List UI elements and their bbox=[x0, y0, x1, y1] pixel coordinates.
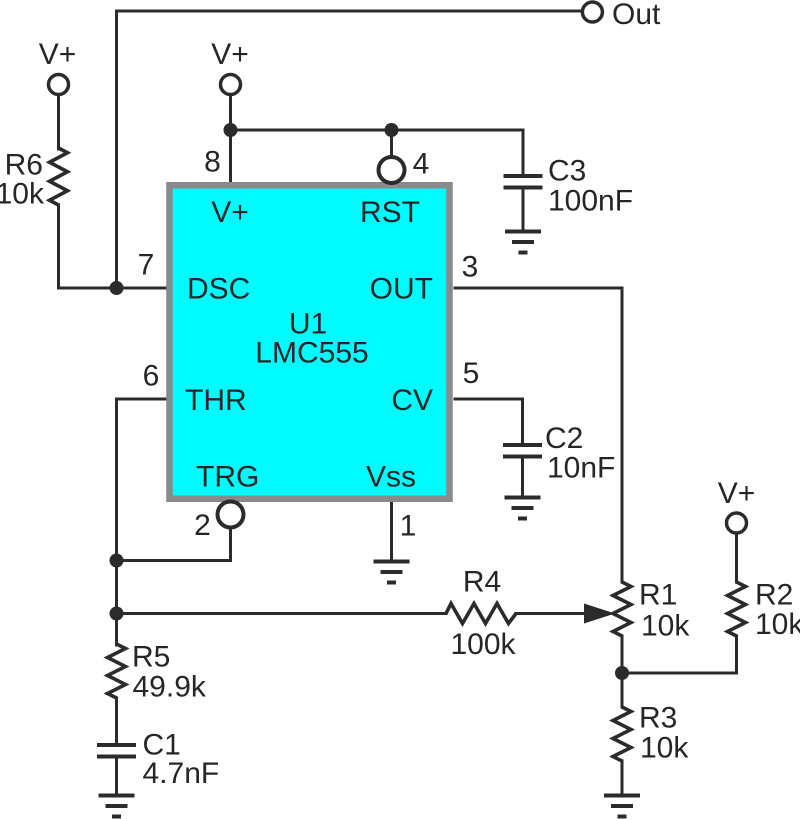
svg-text:2: 2 bbox=[194, 509, 211, 542]
svg-text:CV: CV bbox=[391, 384, 433, 417]
resistor R5 bbox=[108, 644, 126, 698]
svg-text:RST: RST bbox=[360, 196, 420, 229]
node junction pin7 bbox=[110, 281, 124, 295]
wire pin5 to C2 bbox=[455, 399, 523, 443]
svg-text:R1: R1 bbox=[639, 579, 677, 612]
node junction V+ rail at pin8 bbox=[224, 123, 238, 137]
svg-text:Out: Out bbox=[612, 0, 661, 31]
wire node to R2 bottom bbox=[622, 636, 737, 673]
node junction R1/R2/R3 bbox=[615, 666, 629, 680]
svg-text:THR: THR bbox=[185, 384, 247, 417]
node junction V+ rail at pin4 bbox=[385, 123, 399, 137]
svg-text:100nF: 100nF bbox=[548, 185, 633, 218]
resistor R3 bbox=[613, 707, 631, 761]
svg-text:10k: 10k bbox=[641, 610, 690, 643]
wire V+ left to R6 bbox=[57, 95, 60, 149]
wire R1 bottom to node bbox=[621, 636, 624, 673]
svg-text:R5: R5 bbox=[132, 641, 170, 674]
svg-text:TRG: TRG bbox=[196, 461, 259, 494]
svg-text:V+: V+ bbox=[211, 38, 249, 71]
svg-text:7: 7 bbox=[138, 249, 155, 282]
wire R2 top to V+ bbox=[735, 533, 738, 582]
svg-text:10k: 10k bbox=[0, 178, 45, 211]
svg-text:3: 3 bbox=[462, 251, 479, 284]
wire R6 bottom to node bbox=[57, 205, 60, 288]
wire pin3 to R1 top bbox=[455, 288, 622, 582]
wire R3 top bbox=[621, 673, 624, 707]
wire pin1 to ground bbox=[390, 502, 393, 560]
svg-text:V+: V+ bbox=[39, 38, 77, 71]
svg-text:100k: 100k bbox=[450, 628, 516, 661]
svg-text:OUT: OUT bbox=[370, 273, 433, 306]
svg-text:C2: C2 bbox=[545, 422, 583, 455]
wire C1 to ground bbox=[115, 758, 118, 794]
svg-text:4: 4 bbox=[413, 148, 430, 181]
svg-text:1: 1 bbox=[400, 510, 417, 543]
wire R5 to C1 bbox=[115, 698, 118, 743]
wire pin6 to node bbox=[117, 399, 167, 561]
ground C3 bbox=[505, 230, 541, 234]
terminal Out bbox=[582, 2, 602, 22]
wire C2 to ground bbox=[521, 456, 524, 496]
capacitor C3 bbox=[504, 174, 543, 178]
svg-text:DSC: DSC bbox=[187, 273, 250, 306]
resistor R4 bbox=[446, 604, 516, 624]
wire node to R4 node bbox=[115, 561, 118, 614]
svg-text:V+: V+ bbox=[211, 196, 249, 229]
svg-text:10nF: 10nF bbox=[547, 452, 615, 485]
resistor R6 bbox=[50, 148, 68, 205]
wire R4 to arrow bbox=[516, 612, 600, 615]
resistor R2 bbox=[728, 582, 746, 636]
wire node down to R5 bbox=[115, 614, 118, 646]
wire pin2 to node bbox=[117, 528, 231, 561]
IC U1 body bbox=[170, 185, 450, 499]
resistor R1 bbox=[613, 582, 631, 636]
wire R4 left lead bbox=[117, 612, 447, 615]
svg-text:C3: C3 bbox=[548, 155, 586, 188]
ground C1 bbox=[99, 794, 135, 798]
svg-text:R4: R4 bbox=[463, 566, 501, 599]
svg-text:4.7nF: 4.7nF bbox=[143, 757, 220, 790]
svg-text:49.9k: 49.9k bbox=[133, 671, 207, 704]
svg-text:6: 6 bbox=[143, 360, 160, 393]
capacitor C2 bbox=[503, 443, 542, 447]
wire pin8 bbox=[229, 130, 232, 183]
terminal V+ right bbox=[727, 513, 747, 533]
ground C2 bbox=[505, 496, 541, 500]
svg-text:Vss: Vss bbox=[366, 461, 416, 494]
wire pin7 horizontal bbox=[59, 287, 167, 290]
svg-text:R2: R2 bbox=[755, 579, 793, 612]
svg-text:5: 5 bbox=[463, 357, 480, 390]
svg-text:10k: 10k bbox=[755, 608, 800, 641]
pin4 inversion bubble bbox=[379, 157, 405, 183]
wire R3 bottom to ground bbox=[621, 761, 624, 794]
svg-text:V+: V+ bbox=[718, 477, 756, 510]
node junction THR/TRG bbox=[110, 554, 124, 568]
wire V+ rail to C3 bbox=[231, 130, 524, 174]
wire V+ mid down bbox=[229, 95, 232, 130]
svg-text:R3: R3 bbox=[639, 702, 677, 735]
ground pin1 bbox=[374, 560, 410, 564]
terminal V+ left bbox=[49, 75, 69, 95]
svg-text:10k: 10k bbox=[640, 732, 689, 765]
capacitor C1 bbox=[97, 743, 136, 747]
potentiometer wiper arrow bbox=[584, 604, 615, 624]
ground R3 bbox=[604, 794, 640, 798]
pin2 inversion bubble bbox=[218, 502, 244, 528]
terminal V+ mid bbox=[221, 75, 241, 95]
node junction R5/R4 bbox=[110, 607, 124, 621]
svg-text:8: 8 bbox=[204, 146, 221, 179]
wire pin4 stub bbox=[390, 130, 393, 157]
svg-text:LMC555: LMC555 bbox=[255, 337, 368, 370]
wire top from node 7 to Out bbox=[117, 11, 582, 288]
wire C3 to ground bbox=[522, 189, 525, 230]
